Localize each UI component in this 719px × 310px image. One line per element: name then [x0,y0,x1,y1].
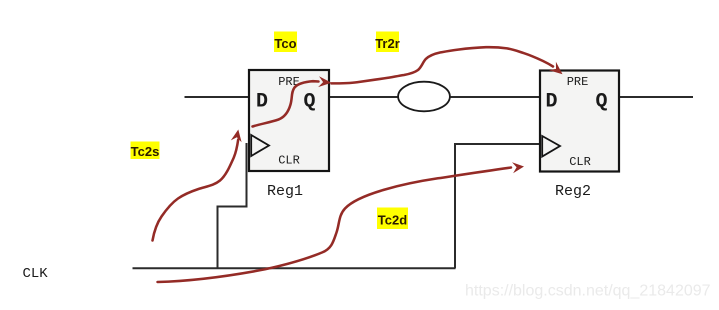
label Tco [274,32,297,53]
register Reg2 box [540,71,619,172]
label Tr2r [376,32,399,53]
svg-text:Tc2d: Tc2d [378,213,407,228]
svg-text:PRE: PRE [567,75,589,89]
svg-text:Reg2: Reg2 [555,183,591,200]
wire: data input into Reg1 D [185,96,249,98]
wire: ellipse to Reg2 D [451,96,540,98]
svg-text:Q: Q [304,91,316,114]
node: combinational-logic ellipse [398,82,450,112]
wire: CLK horizontal bus [133,267,456,269]
svg-text:Tc2s: Tc2s [131,144,160,159]
svg-text:Tr2r: Tr2r [375,36,400,51]
label Tc2d [377,208,408,230]
svg-text:Tco: Tco [274,36,296,51]
svg-text:https://blog.csdn.net/qq_21842: https://blog.csdn.net/qq_21842097 [465,283,711,300]
svg-text:CLK: CLK [23,266,49,282]
wire: clock branch to Reg1 clock pin [218,143,247,268]
arrowhead Tco [318,76,331,87]
register Reg1 box [249,70,329,171]
arrowhead Tc2d [512,162,524,173]
wire: clock branch to Reg2 clock pin [455,144,540,268]
arrowhead Tc2s [231,130,242,143]
arrow Tc2d: clock to destination register [158,168,512,283]
Reg1 clock input triangle [251,135,269,156]
arrow Tc2s: clock to source register [153,140,239,241]
svg-text:Reg1: Reg1 [267,183,303,200]
arrow Tco: clock-to-output inside Reg1 [253,81,319,126]
wire: Reg1 Q to ellipse [330,96,399,98]
arrowhead Tr2r [549,62,563,75]
svg-text:D: D [256,91,268,114]
svg-text:Q: Q [596,91,608,114]
arrow Tr2r: register-to-register routing [332,47,554,83]
label Tc2s [131,142,160,160]
svg-text:CLR: CLR [278,154,300,168]
svg-text:D: D [546,91,558,114]
svg-text:CLR: CLR [569,155,591,169]
Reg2 clock input triangle [542,136,560,157]
wire: Reg2 Q output [620,96,693,98]
